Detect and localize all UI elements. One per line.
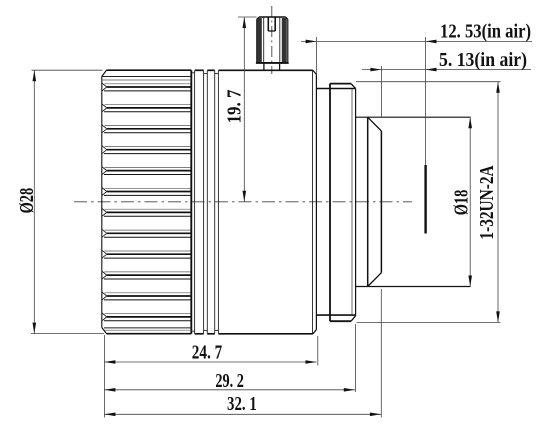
thread relief neck (316, 89, 355, 316)
svg-text:5. 13(in air): 5. 13(in air) (439, 49, 527, 71)
svg-text:29. 2: 29. 2 (215, 370, 244, 392)
svg-text:12. 53(in air): 12. 53(in air) (440, 20, 531, 42)
dimension thread 1-32UN-2A (356, 82, 501, 323)
front barrel Ø18 (356, 117, 471, 286)
dimension 28 diameter (16, 70, 104, 333)
dimension 32.1 (104, 289, 381, 418)
dimension 29.2 (104, 324, 355, 392)
knurled focus ring (102, 70, 192, 334)
centerline horizontal axis (74, 201, 412, 203)
main body barrel (195, 70, 317, 334)
spacer rings between focus ring and body (191, 71, 218, 334)
svg-text:24. 7: 24. 7 (192, 342, 222, 364)
dimension 5.13 (in air) (362, 49, 531, 117)
centerline screw axis (271, 6, 273, 74)
dimension 18 diameter (451, 117, 473, 286)
dimension 24.7 (104, 335, 317, 418)
image plane mark (425, 37, 427, 165)
C-mount thread barrel 1-32UN-2A (330, 84, 356, 322)
svg-text:19. 7: 19. 7 (224, 90, 246, 124)
svg-text:1-32UN-2A: 1-32UN-2A (476, 165, 498, 239)
svg-text:Ø28: Ø28 (16, 188, 38, 214)
svg-text:Ø18: Ø18 (451, 190, 473, 216)
locking screw Q1 (256, 17, 289, 70)
dimension 19.7 (224, 17, 257, 202)
dimension 12.53 (in air) (301, 20, 532, 74)
svg-text:32. 1: 32. 1 (227, 393, 257, 415)
